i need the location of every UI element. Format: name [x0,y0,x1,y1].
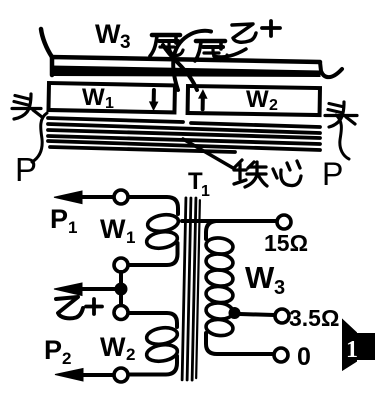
svg-text:P: P [322,156,343,192]
winding W3 box [52,57,320,75]
label P2 [44,335,71,368]
svg-text:1: 1 [126,228,135,247]
coil W3 [205,237,234,256]
wire W3 top lead [182,219,276,223]
wire corner into W3 coil [206,221,216,239]
label W2 (in box) [246,86,278,114]
coil W2 [145,326,178,347]
label 3.5 ohm [289,305,339,331]
svg-text:2: 2 [62,349,71,368]
svg-text:1: 1 [68,218,77,237]
svg-text:3.5Ω: 3.5Ω [289,305,339,331]
wire tap lead [240,314,274,315]
wire from W1 coil [129,243,178,265]
pointer line to iron-core label [183,139,233,168]
label W3 (right) [245,260,285,299]
svg-text:W: W [82,84,105,111]
label 乙 (top) [232,24,256,42]
label 铁 [234,160,267,187]
label 乙 (bottom) [56,297,83,318]
iron core laminations [48,118,183,122]
svg-text:W: W [100,332,126,362]
wire P1 lead [80,195,113,199]
figure marker (speaker icon with 1) [342,319,357,372]
junction dot 乙+ [115,283,128,296]
wire down to junction [119,272,123,284]
label W3 (top) [95,19,131,53]
label P1 [50,204,77,237]
label P (left) [15,151,37,188]
arrowhead 乙+ [54,283,82,296]
label + (top) [262,21,280,36]
label + (bottom) [86,299,102,314]
wire W3 start lead (top-left) [41,29,52,57]
svg-text:W: W [100,214,126,244]
svg-text:0: 0 [297,343,311,371]
terminal W1 bottom [114,258,128,272]
wire junction to W2 top terminal [119,294,123,305]
label 0 [297,343,311,371]
label 尾 (left tail) [150,35,183,56]
terminal W2 bottom [114,368,128,382]
terminal W2 top [114,306,128,320]
arrowhead P1 [54,191,82,204]
wire swoosh under 乙 [214,49,246,57]
wire to W1 coil [129,197,178,214]
winding W2 box [188,86,320,115]
wire to W2 coil [129,313,177,327]
wire W3 end hook (right) [320,62,342,77]
label P (right) [322,156,343,192]
label W1 (in box) [82,84,114,112]
label 15 ohm [264,230,308,256]
terminal W1 top [114,190,128,204]
label 心 [273,161,301,186]
arrow down (W1 winding direction) [150,90,158,110]
svg-text:2: 2 [126,345,135,364]
svg-text:1: 1 [105,95,114,112]
svg-text:1: 1 [346,337,358,363]
label 头 (left head) [12,94,42,119]
svg-text:P: P [50,204,68,234]
svg-text:15Ω: 15Ω [264,230,308,256]
label 尾 (right tail) [195,41,227,61]
label T1 [188,168,210,200]
svg-text:2: 2 [269,97,278,114]
terminal 3.5-ohm [275,309,289,323]
terminal 0 [274,348,288,362]
label W2 [100,332,135,364]
wire W2 tail crossing up to left [163,45,197,90]
label 头 (right head) [325,102,357,127]
svg-text:W: W [246,86,269,113]
coil W1 [146,213,179,234]
terminal 15-ohm [277,215,291,229]
svg-text:P: P [44,335,62,365]
right brace [336,115,349,159]
tap dot 3.5-ohm [229,307,241,319]
wire W3 bottom lead [206,333,273,354]
wire from W2 coil [129,356,177,375]
svg-text:W: W [245,260,275,295]
wire W1 tail crossing up to right hook [173,31,211,90]
wire 乙+ lead [80,287,115,291]
svg-text:3: 3 [120,32,131,53]
winding W1 box [48,83,174,112]
wire P2 lead [80,373,113,377]
arrow up (W2 winding direction) [199,90,207,109]
label W1 [100,214,135,247]
svg-text:W: W [95,19,121,49]
svg-text:1: 1 [201,183,210,200]
arrowhead P2 [55,369,83,382]
svg-text:3: 3 [274,277,285,299]
svg-text:P: P [15,151,37,188]
left brace [32,113,47,162]
transformer core (vertical laminations) [182,198,200,380]
